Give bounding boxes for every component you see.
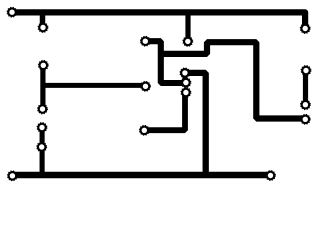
wire: bottom rail from pad P15 to pad P16 <box>12 172 270 179</box>
pad P10 <box>181 78 191 88</box>
wire: connector pad P9 to pad P10 <box>182 73 187 83</box>
wire: stub from top rail down to pad P2 <box>40 10 46 28</box>
wire: branch right, up, right, down, right to pad P19 <box>161 42 305 118</box>
pad hole P11 <box>183 90 188 95</box>
pad hole P10 <box>183 80 188 85</box>
pad P12 <box>139 125 149 135</box>
pad P5 <box>140 36 150 46</box>
pad hole P4 <box>303 26 308 31</box>
pad hole P14 <box>39 144 44 149</box>
pad P15 <box>8 171 18 181</box>
pad hole P3 <box>185 39 190 44</box>
pad P16 <box>266 171 276 181</box>
pad hole P12 <box>142 128 147 133</box>
pad hole P18 <box>303 102 308 107</box>
wire: left middle vertical pad P6 to pad P8 <box>40 65 45 109</box>
wire: top rail from pad P1 across to corner down to pad P4 <box>12 12 305 28</box>
pad P14 <box>37 142 47 152</box>
pad P13 <box>37 123 47 133</box>
pad P2 <box>38 23 48 33</box>
pad P9 <box>180 68 190 78</box>
pad P17 <box>301 66 311 76</box>
wire: right vertical pad P17 to pad P18 <box>303 71 308 105</box>
wire: branch right to pad P7 <box>43 83 146 88</box>
wire: staircase from pad P5 right, down, right to pad P10 <box>145 41 186 83</box>
wire: left lower vertical pad P13 through pad P14 to bottom rail <box>40 128 45 176</box>
pad P3 <box>183 37 193 47</box>
pad hole P15 <box>10 173 15 178</box>
pad hole P9 <box>182 70 187 75</box>
pad P7 <box>141 81 151 91</box>
pad hole P17 <box>303 68 308 73</box>
pad P19 <box>300 114 310 124</box>
pad hole P19 <box>303 117 308 122</box>
pad P6 <box>38 60 48 70</box>
wire: from pad P11 down then left to pad P12 <box>144 93 185 131</box>
pad P8 <box>38 104 48 114</box>
pad P11 <box>181 88 191 98</box>
wire: stub from top rail down to pad P3 <box>185 10 190 42</box>
pad hole P8 <box>40 106 45 111</box>
pad hole P1 <box>9 10 14 15</box>
pad hole P6 <box>41 63 46 68</box>
pad hole P2 <box>40 25 45 30</box>
pad P4 <box>300 24 310 34</box>
pad P18 <box>301 100 311 110</box>
pad hole P5 <box>143 39 148 44</box>
pad P1 <box>7 7 17 17</box>
pad hole P16 <box>268 173 273 178</box>
pad hole P13 <box>39 125 44 130</box>
wire: from pad P9 right then long vertical down to bottom rail <box>185 73 206 175</box>
pad hole P7 <box>143 84 148 89</box>
